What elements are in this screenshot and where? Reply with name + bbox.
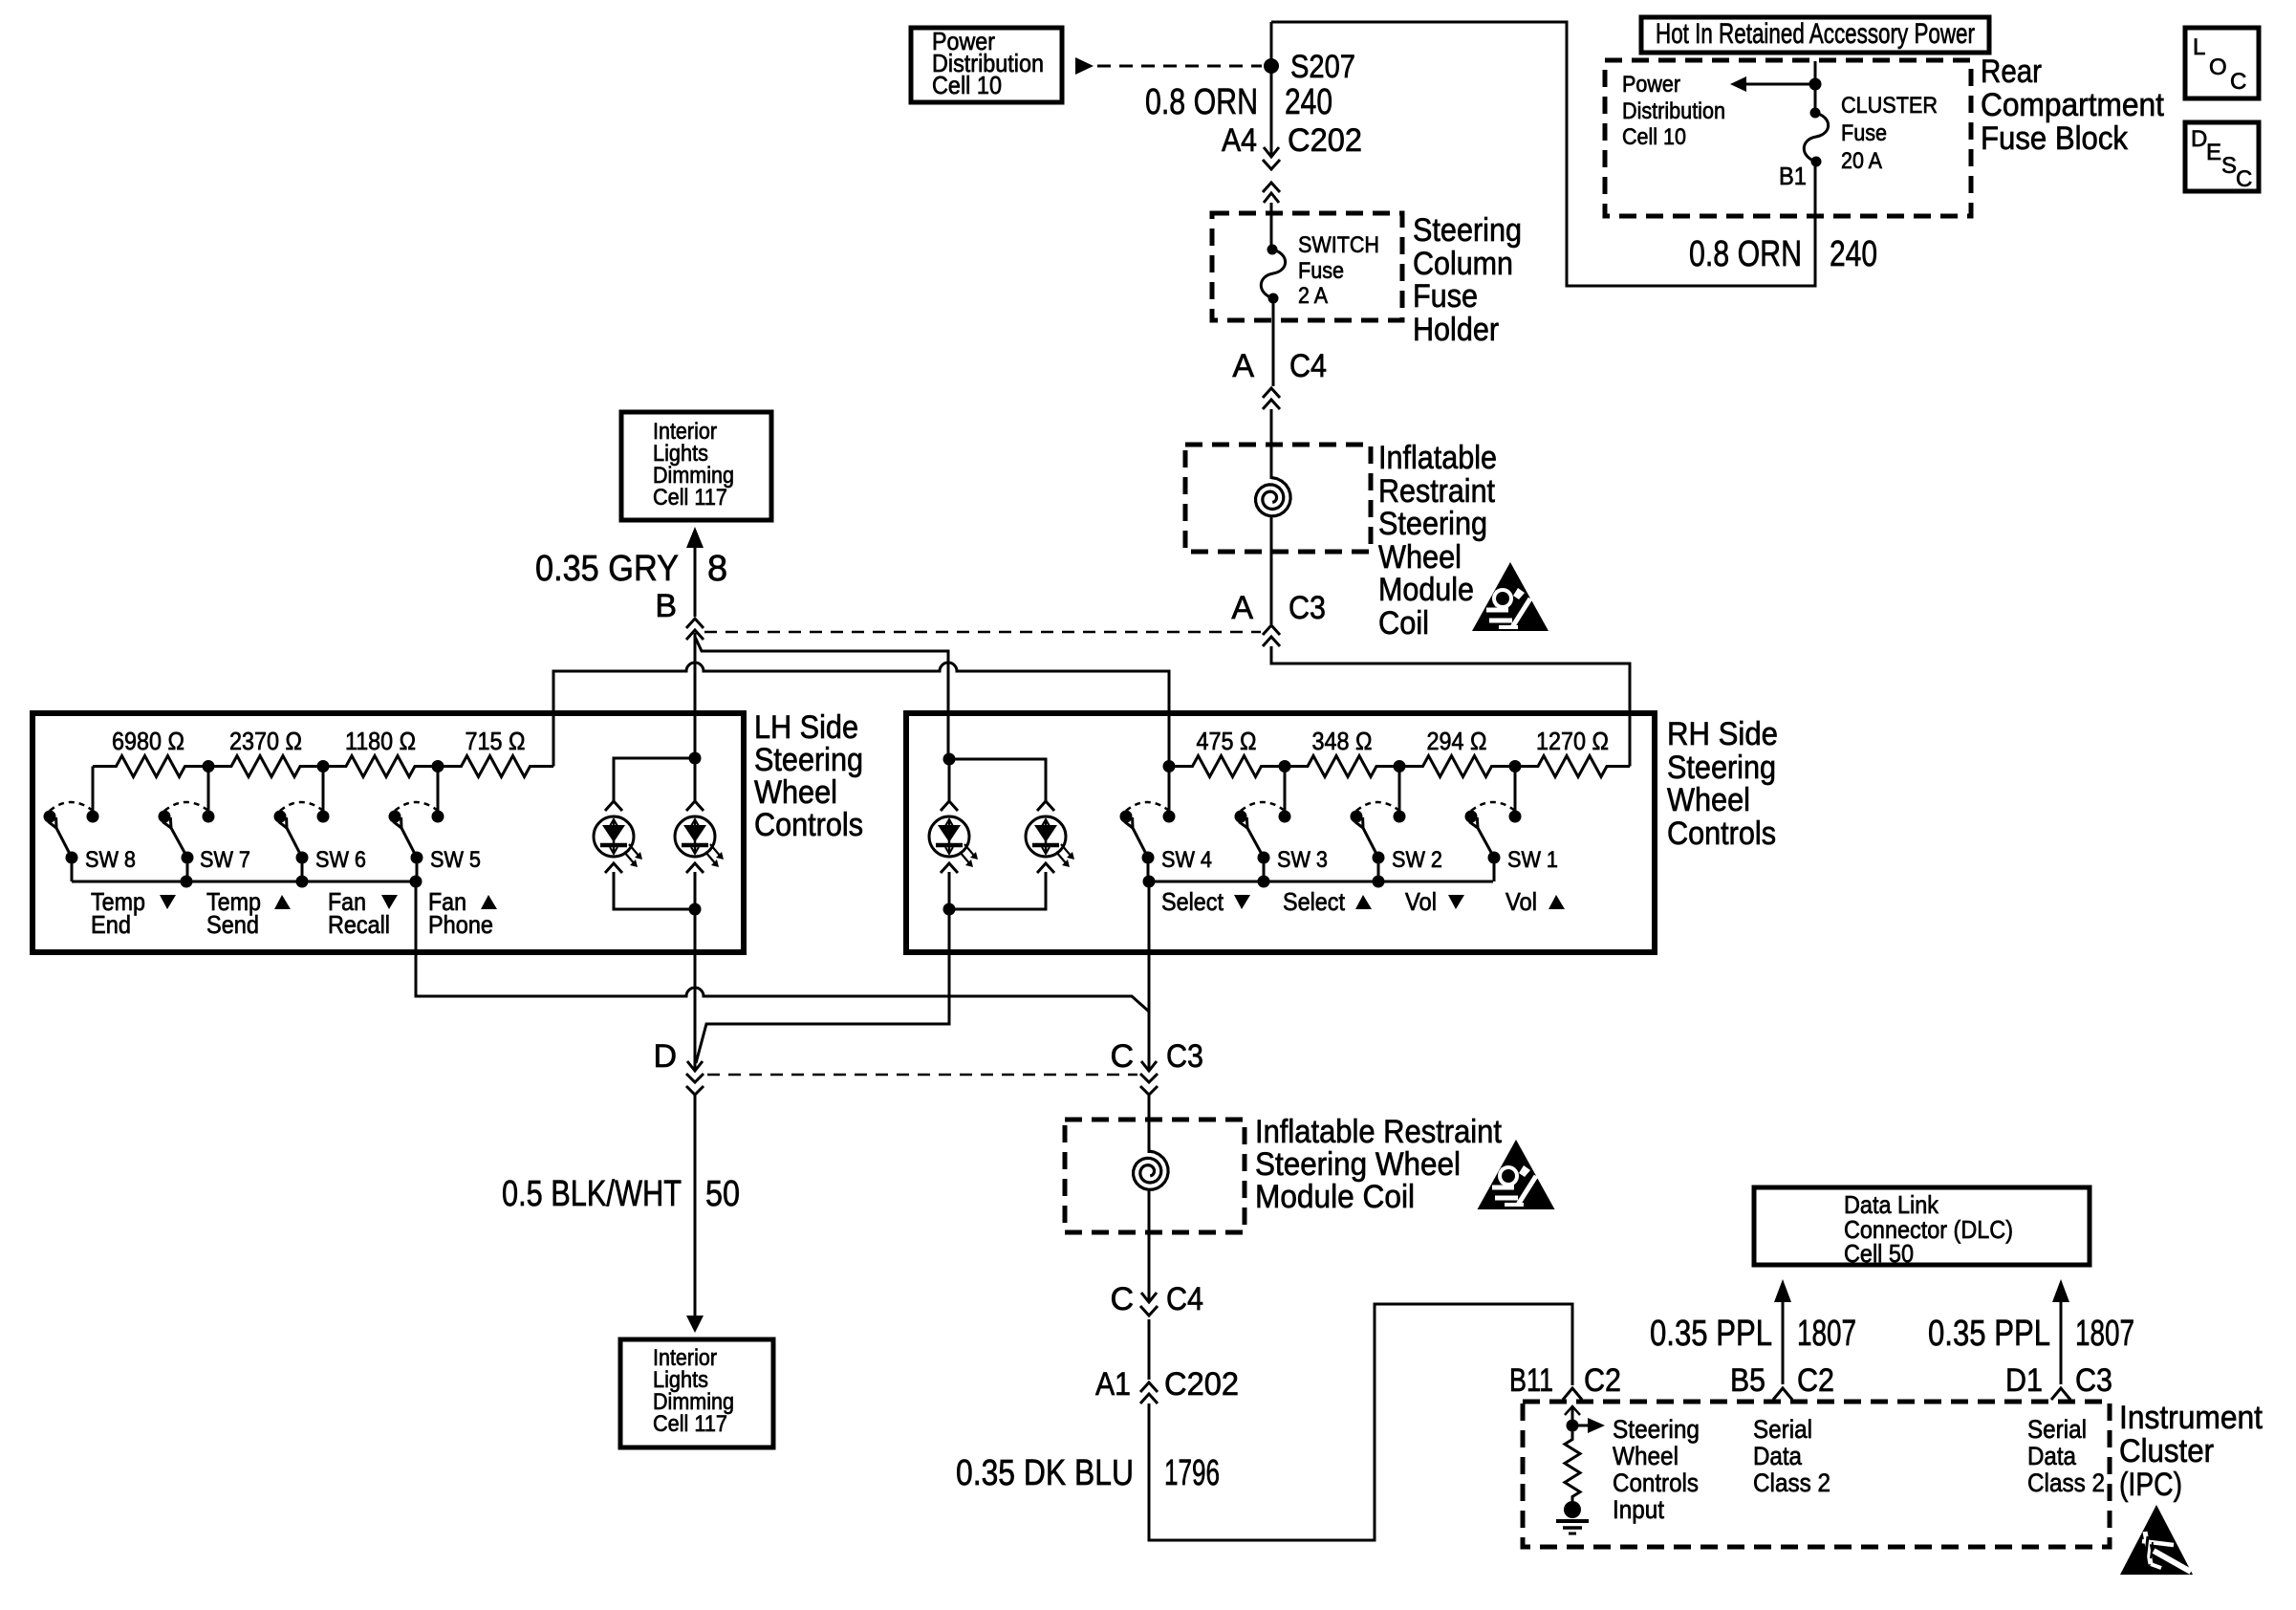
wire: C202 to SWITCH fuse — [1270, 203, 1273, 250]
svg-text:SW 4: SW 4 — [1161, 847, 1212, 873]
svg-text:Inflatable: Inflatable — [1378, 440, 1497, 476]
svg-text:Data: Data — [2027, 1442, 2077, 1470]
svg-text:475 Ω: 475 Ω — [1197, 727, 1257, 755]
svg-text:Steering: Steering — [754, 742, 863, 778]
svg-text:0.35 PPL: 0.35 PPL — [1650, 1314, 1772, 1354]
svg-text:Column: Column — [1413, 246, 1513, 282]
airbag warning triangle 2 — [1478, 1140, 1555, 1209]
arrow Steering Wheel Controls Input — [1572, 1425, 1588, 1427]
svg-text:B5: B5 — [1730, 1362, 1765, 1399]
svg-text:Holder: Holder — [1413, 312, 1499, 348]
connector C3 of coil (in-line, down) — [1140, 1061, 1158, 1095]
svg-text:Steering Wheel: Steering Wheel — [1255, 1146, 1461, 1183]
switch SW 5 — [395, 802, 438, 811]
wire: C4 to C202 — [1148, 1319, 1151, 1380]
box: Inflatable Restraint Steering Wheel Module Coil (dashed) — [1185, 445, 1371, 552]
wire: RH switch output drop (C) — [1148, 881, 1151, 1071]
svg-text:Fuse: Fuse — [1841, 120, 1887, 146]
resistor 2370 ohm — [208, 756, 323, 777]
svg-text:Steering: Steering — [1667, 750, 1776, 786]
svg-text:Vol: Vol — [1405, 887, 1437, 916]
svg-text:Cell 10: Cell 10 — [1622, 124, 1686, 150]
svg-text:Module: Module — [1378, 572, 1474, 608]
svg-text:0.8 ORN: 0.8 ORN — [1689, 234, 1802, 274]
svg-text:Input: Input — [1613, 1495, 1664, 1524]
svg-text:Wheel: Wheel — [1667, 782, 1750, 818]
box: Hot In Retained Accessory Power — [1641, 17, 1989, 53]
junction dot RH LED feed — [943, 753, 956, 766]
LED (LH illumination 2) — [686, 801, 704, 811]
svg-text:C4: C4 — [1166, 1281, 1203, 1317]
svg-text:A: A — [1232, 348, 1254, 384]
svg-text:Instrument: Instrument — [2119, 1400, 2264, 1436]
svg-text:Select: Select — [1283, 887, 1346, 916]
switch SW 4 — [1126, 802, 1169, 811]
svg-text:1796: 1796 — [1164, 1453, 1220, 1493]
svg-text:RH Side: RH Side — [1667, 716, 1778, 752]
wire: B11 input with up arrow — [1571, 1406, 1574, 1431]
svg-text:2370 Ω: 2370 Ω — [229, 727, 302, 755]
svg-text:C: C — [2236, 166, 2252, 192]
svg-text:SW 7: SW 7 — [200, 847, 250, 873]
svg-text:Steering: Steering — [1413, 212, 1522, 249]
svg-text:Data: Data — [1753, 1442, 1803, 1470]
svg-text:240: 240 — [1830, 234, 1877, 274]
svg-text:Serial: Serial — [2027, 1415, 2087, 1444]
svg-text:C4: C4 — [1289, 348, 1327, 384]
resistor 475 ohm — [1169, 756, 1285, 777]
svg-text:Cluster: Cluster — [2119, 1433, 2214, 1469]
wire: C into coil 2 — [1148, 1095, 1151, 1153]
junction dots on LH resistor chain — [203, 760, 215, 772]
svg-text:E: E — [2206, 140, 2221, 165]
svg-text:Power: Power — [1622, 72, 1680, 98]
svg-text:Class 2: Class 2 — [1753, 1469, 1830, 1497]
svg-text:0.8 ORN: 0.8 ORN — [1145, 82, 1258, 122]
svg-text:D1: D1 — [2005, 1362, 2043, 1399]
svg-text:Module Coil: Module Coil — [1255, 1179, 1415, 1215]
svg-text:Wheel: Wheel — [754, 774, 837, 811]
ESD sensitive triangle — [2120, 1505, 2193, 1575]
box: LOC — [2185, 28, 2259, 98]
svg-text:LH Side: LH Side — [754, 709, 858, 746]
arrowhead to Interior Lights box — [686, 527, 704, 548]
junction dot at fuse feed — [1809, 78, 1822, 91]
ground (IPC internal) — [1564, 1501, 1581, 1518]
connector C4 second (down) — [1140, 1293, 1158, 1316]
wire: LH LED cathode rail — [614, 872, 695, 909]
wire: C4 to coil — [1270, 409, 1273, 479]
switch SW 2 — [1356, 802, 1399, 811]
svg-text:Inflatable Restraint: Inflatable Restraint — [1255, 1114, 1502, 1150]
LED (RH illumination 1) — [941, 801, 958, 811]
LED (LH illumination 1) — [605, 801, 622, 811]
wire: RH LED anode rail — [949, 759, 1046, 801]
svg-text:Compartment: Compartment — [1981, 87, 2165, 123]
svg-text:B1: B1 — [1779, 162, 1807, 190]
svg-text:Restraint: Restraint — [1378, 473, 1495, 510]
wire: top loop from S207 to fuse B1 — [1271, 22, 1815, 286]
svg-text:L: L — [2193, 34, 2205, 60]
wire: S207 vertical drop to C202 — [1270, 22, 1273, 157]
switch SW 8 — [50, 802, 93, 811]
resistor 294 ohm — [1399, 756, 1515, 777]
wire: RH LED cathode rail — [949, 872, 1046, 909]
svg-text:End: End — [91, 910, 131, 939]
connector B (up carets) — [686, 619, 704, 640]
coil spiral 2 (SIR coil) — [1134, 1151, 1169, 1189]
LH switch common rail — [72, 881, 416, 883]
box: LH Side Steering Wheel Controls — [32, 713, 744, 952]
svg-text:Controls: Controls — [754, 807, 863, 843]
svg-text:20 A: 20 A — [1841, 148, 1882, 174]
svg-text:Recall: Recall — [328, 910, 390, 939]
box: Interior Lights Dimming Cell 117 (lower) — [620, 1339, 773, 1447]
svg-text:C2: C2 — [1797, 1362, 1834, 1399]
svg-text:Hot In Retained Accessory Powe: Hot In Retained Accessory Power — [1656, 18, 1975, 50]
junction S207 — [1264, 58, 1279, 74]
svg-text:240: 240 — [1285, 82, 1332, 122]
wire: B5 to DLC — [1782, 1302, 1785, 1384]
dashed SIR wire B to C3 — [704, 631, 1261, 634]
wire: LH LED anode rail — [614, 758, 695, 801]
switch SW 7 — [164, 802, 208, 811]
svg-text:S207: S207 — [1290, 49, 1355, 85]
resistor 1270 ohm — [1515, 756, 1630, 777]
junction dots on RH resistor chain — [1163, 760, 1176, 772]
wire: 715 ohm output across to 475 ohm (with hops) — [553, 663, 1169, 767]
stubs from RH chain to switch contacts — [1169, 767, 1515, 812]
switch SW 1 — [1471, 802, 1515, 811]
svg-text:C202: C202 — [1164, 1366, 1239, 1403]
svg-text:0.35 GRY: 0.35 GRY — [535, 549, 679, 589]
svg-text:CLUSTER: CLUSTER — [1841, 93, 1938, 119]
switch SW 3 — [1241, 802, 1285, 811]
svg-text:SW 3: SW 3 — [1277, 847, 1328, 873]
svg-text:Coil: Coil — [1378, 605, 1429, 642]
wire: jog from B to RH LED feed — [695, 637, 948, 759]
svg-text:C: C — [2230, 69, 2246, 95]
svg-text:A1: A1 — [1095, 1366, 1131, 1403]
svg-text:2 A: 2 A — [1298, 283, 1328, 309]
svg-text:348 Ω: 348 Ω — [1312, 727, 1373, 755]
svg-text:1807: 1807 — [2075, 1314, 2134, 1354]
RH switch common rail — [1149, 881, 1493, 883]
resistor 6980 ohm — [93, 756, 208, 777]
svg-text:Steering: Steering — [1378, 506, 1487, 542]
connector C4 (up carets) — [1263, 388, 1280, 409]
wire: fuse block feed — [1814, 61, 1817, 113]
svg-text:SW 1: SW 1 — [1507, 847, 1558, 873]
svg-text:Vol: Vol — [1505, 887, 1537, 916]
wire: D drop from LH LEDs — [694, 909, 697, 1071]
connector C202 second (up carets) — [1140, 1382, 1158, 1403]
wire: fuse to C4 — [1272, 298, 1275, 386]
svg-text:SW 8: SW 8 — [85, 847, 136, 873]
svg-text:C3: C3 — [2075, 1362, 2112, 1399]
svg-text:Rear: Rear — [1981, 54, 2042, 90]
arrowhead to DLC (left) — [1774, 1279, 1791, 1302]
dashed wire to S207 — [1097, 65, 1262, 68]
wire: B up to Interior Lights — [694, 547, 697, 617]
junction dot LH LED feed — [689, 752, 702, 765]
svg-text:Phone: Phone — [428, 910, 493, 939]
svg-text:8: 8 — [707, 549, 727, 589]
svg-text:C: C — [1110, 1281, 1134, 1317]
svg-text:Fuse: Fuse — [1413, 278, 1478, 315]
svg-text:Wheel: Wheel — [1378, 539, 1462, 576]
box: Instrument Cluster IPC (dashed) — [1523, 1402, 2110, 1547]
svg-text:Controls: Controls — [1667, 816, 1776, 852]
svg-text:C3: C3 — [1289, 590, 1326, 626]
stubs from chain to switch contacts — [93, 767, 438, 812]
svg-text:715 Ω: 715 Ω — [466, 727, 526, 755]
svg-text:Select: Select — [1161, 887, 1224, 916]
svg-text:Cell 117: Cell 117 — [653, 1411, 727, 1437]
svg-text:Serial: Serial — [1753, 1415, 1812, 1444]
svg-text:1180 Ω: 1180 Ω — [345, 727, 416, 755]
svg-text:(IPC): (IPC) — [2119, 1467, 2182, 1503]
LED (RH illumination 2) — [1037, 801, 1054, 811]
wire: B drop into LH controls — [694, 633, 697, 758]
coil spiral (SIR coil) — [1256, 478, 1291, 516]
arrowhead from Power Distribution box — [1075, 57, 1094, 75]
connector D1 (caret) — [2051, 1388, 2070, 1400]
svg-text:SW 5: SW 5 — [430, 847, 481, 873]
svg-text:Controls: Controls — [1613, 1469, 1699, 1497]
connector B11 (caret) — [1563, 1388, 1582, 1400]
svg-text:0.5 BLK/WHT: 0.5 BLK/WHT — [502, 1174, 682, 1214]
svg-text:B: B — [655, 588, 677, 624]
junction dot steering wheel input — [1567, 1420, 1579, 1432]
arrowhead to DLC (right) — [2052, 1279, 2069, 1302]
svg-text:C: C — [1110, 1038, 1134, 1075]
svg-text:Fuse Block: Fuse Block — [1981, 120, 2129, 157]
svg-text:SWITCH: SWITCH — [1298, 232, 1379, 258]
switch SW 6 — [280, 802, 323, 811]
wire: RH LED return to D — [696, 909, 949, 1063]
svg-text:Cell 50: Cell 50 — [1844, 1239, 1914, 1268]
box: Interior Lights Dimming Cell 117 (upper) — [621, 412, 771, 520]
svg-text:D: D — [653, 1038, 677, 1075]
svg-text:Wheel: Wheel — [1613, 1442, 1679, 1470]
svg-text:C2: C2 — [1584, 1362, 1621, 1399]
box: DESC — [2185, 122, 2259, 191]
svg-text:C3: C3 — [1166, 1038, 1203, 1075]
wire: coil 2 to C4 — [1148, 1190, 1151, 1301]
svg-text:D: D — [2191, 126, 2207, 152]
arrow to Power Distribution cell — [1746, 83, 1815, 86]
svg-text:Class 2: Class 2 — [2027, 1469, 2105, 1497]
fuse CLUSTER 20 A — [1810, 108, 1821, 119]
fuse SWITCH 2 A — [1267, 245, 1278, 255]
svg-text:SW 2: SW 2 — [1392, 847, 1442, 873]
svg-text:O: O — [2209, 54, 2227, 80]
dashed SIR wire D to C — [707, 1074, 1137, 1077]
svg-text:Cell 117: Cell 117 — [653, 485, 727, 511]
resistor 715 ohm — [438, 756, 553, 777]
svg-text:B11: B11 — [1509, 1362, 1553, 1399]
wire: D down to Interior Lights (lower) — [694, 1095, 697, 1316]
arrowhead into lower Interior Lights box — [686, 1316, 704, 1333]
connector D (in-line, down) — [686, 1061, 704, 1095]
svg-text:0.35 PPL: 0.35 PPL — [1928, 1314, 2050, 1354]
wire: A1 C202 loop to IPC B11 — [1149, 1304, 1572, 1540]
svg-text:0.35 DK BLU: 0.35 DK BLU — [956, 1453, 1134, 1493]
connector C202 (in-line) — [1263, 147, 1280, 203]
box: RH Side Steering Wheel Controls — [906, 713, 1655, 952]
svg-text:Send: Send — [206, 910, 259, 939]
svg-text:A4: A4 — [1222, 122, 1257, 159]
wire: LH switch output to C (with hop over D) — [416, 881, 1149, 1012]
svg-text:Steering: Steering — [1613, 1415, 1700, 1444]
box: Rear Compartment Fuse Block (dashed) — [1605, 60, 1971, 216]
svg-text:Fuse: Fuse — [1298, 258, 1344, 284]
svg-text:Cell 10: Cell 10 — [932, 71, 1002, 99]
svg-text:294 Ω: 294 Ω — [1427, 727, 1487, 755]
svg-text:6980 Ω: 6980 Ω — [112, 727, 184, 755]
svg-text:Distribution: Distribution — [1622, 98, 1725, 124]
resistor 348 ohm — [1285, 756, 1399, 777]
wire: coil to C3 — [1270, 517, 1273, 624]
box: Power Distribution Cell 10 (top left) — [911, 28, 1062, 102]
svg-text:1270 Ω: 1270 Ω — [1536, 727, 1609, 755]
svg-text:S: S — [2221, 153, 2237, 179]
resistor 1180 ohm — [323, 756, 438, 777]
svg-text:C202: C202 — [1288, 122, 1362, 159]
connector C3 (up carets) — [1263, 625, 1280, 646]
wire: D1 to DLC — [2060, 1302, 2063, 1384]
svg-text:1807: 1807 — [1797, 1314, 1856, 1354]
connector B5 (caret) — [1773, 1388, 1792, 1400]
svg-text:SW 6: SW 6 — [315, 847, 366, 873]
resistor (IPC pull-up) — [1565, 1431, 1580, 1501]
box: Inflatable Restraint Steering Wheel Module Coil 2 (dashed) — [1065, 1120, 1245, 1232]
box: Steering Column Fuse Holder (dashed) — [1212, 213, 1402, 320]
svg-text:A: A — [1231, 590, 1253, 626]
svg-text:50: 50 — [705, 1174, 740, 1214]
wire: C3 down and across to RH controls — [1271, 646, 1630, 767]
airbag warning triangle — [1472, 562, 1549, 631]
box: Data Link Connector (DLC) Cell 50 — [1754, 1187, 2090, 1265]
